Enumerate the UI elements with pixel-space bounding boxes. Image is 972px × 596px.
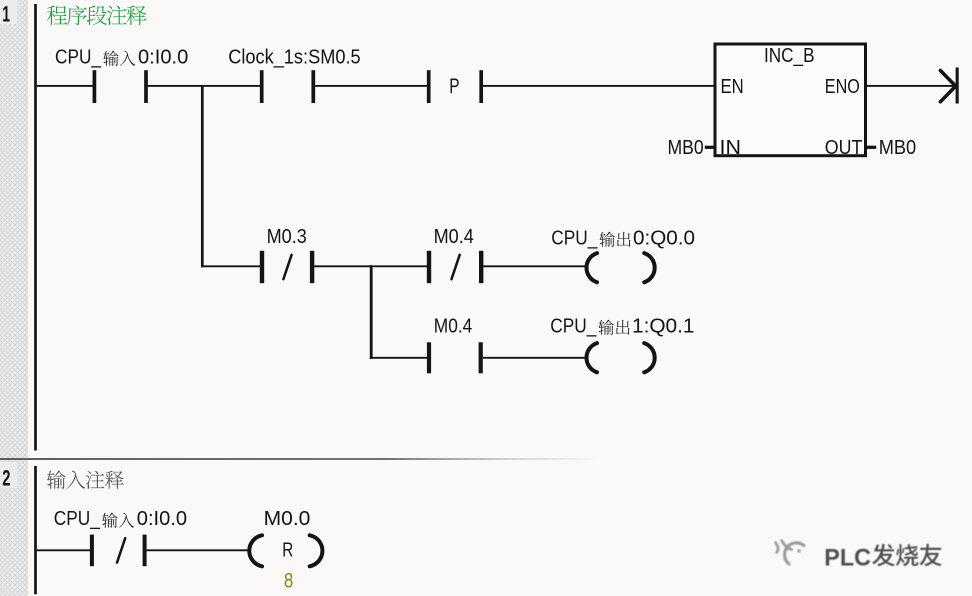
label CPU_输出1:Q0.1: [550, 315, 694, 337]
network number gutter (hatched): [0, 0, 28, 596]
label CPU_输入0:I0.0: [55, 46, 188, 68]
wire: M0.4 to coil Q0.0: [483, 265, 586, 267]
svg-text:IN: IN: [720, 137, 742, 159]
svg-text:INC_B: INC_B: [764, 45, 815, 67]
contact P (positive edge): [427, 70, 483, 103]
svg-text:R: R: [282, 540, 293, 562]
wire: I0.0 to SM0.5 (junction at branch 1): [148, 85, 262, 87]
network separator line: [0, 458, 972, 460]
network 2 left power rail: [34, 466, 37, 594]
wire: branch to contact M0.3: [201, 265, 262, 267]
svg-text:CPU_: CPU_: [551, 227, 598, 249]
wire: branch 1 vertical: [201, 85, 204, 267]
contact M0.4 (NC): [427, 251, 484, 283]
contact M0.3 (NC): [260, 251, 315, 283]
svg-text:Clock_1s:SM0.5: Clock_1s:SM0.5: [228, 46, 361, 68]
svg-text:0:Q0.0: 0:Q0.0: [633, 227, 695, 249]
contact CPU_输入0:I0.0 (NO): [93, 70, 148, 103]
watermark text PLC发烧友: [824, 544, 941, 572]
svg-text:M0.3: M0.3: [267, 226, 307, 248]
wire: IN pin stub: [705, 146, 714, 149]
svg-text:CPU_: CPU_: [54, 508, 101, 530]
svg-text:8: 8: [284, 569, 293, 592]
svg-text:M0.4: M0.4: [434, 226, 474, 248]
wire: M0.4 to coil Q0.1: [483, 357, 587, 359]
wire: OUT pin stub: [867, 146, 876, 149]
coil CPU_输出0:Q0.0: [586, 253, 654, 282]
label CPU_输入0:I0.0 (net2): [54, 508, 187, 530]
svg-text:2: 2: [2, 466, 10, 491]
svg-text:CPU_: CPU_: [55, 46, 102, 68]
svg-text:MB0: MB0: [879, 137, 917, 159]
svg-text:PLC: PLC: [824, 545, 871, 572]
svg-text:ENO: ENO: [825, 76, 860, 98]
wire: ENO to right arrow: [867, 85, 956, 87]
svg-text:M0.4: M0.4: [434, 315, 473, 337]
coil CPU_输出1:Q0.1: [586, 343, 654, 372]
svg-text:OUT: OUT: [825, 137, 863, 159]
contact CPU_输入0:I0.0 (NC): [90, 535, 147, 567]
svg-text:M0.0: M0.0: [264, 508, 311, 530]
function box INC_B: [715, 44, 866, 156]
svg-text:0:I0.0: 0:I0.0: [137, 508, 187, 530]
label CPU_输出0:Q0.0: [551, 227, 695, 249]
network 2 title comment (gray): [47, 470, 124, 489]
wire: M0.3 to M0.4 (junction at branch 2): [314, 265, 429, 267]
wire: P contact to INC_B box: [483, 85, 714, 87]
network 1 title comment (green): [47, 5, 147, 25]
svg-text:CPU_: CPU_: [550, 315, 597, 337]
svg-text:0:I0.0: 0:I0.0: [138, 46, 188, 68]
wire: rail to contact I0.0: [37, 85, 93, 87]
svg-text:1: 1: [2, 2, 10, 27]
watermark logo: [776, 541, 805, 565]
contact M0.4 (NO): [427, 342, 483, 373]
wire: I0.0 to coil R: [147, 549, 250, 551]
coil M0.0 (R reset): [249, 535, 322, 566]
svg-text:EN: EN: [721, 76, 744, 98]
svg-text:MB0: MB0: [668, 137, 704, 159]
wire: branch 2 vertical: [370, 265, 373, 359]
network 1 left power rail: [34, 4, 37, 451]
svg-text:1:Q0.1: 1:Q0.1: [632, 315, 695, 337]
wire: rail to contact I0.0 (net2): [37, 549, 90, 551]
wire: branch 2 to contact M0.4: [370, 357, 429, 359]
wire: SM0.5 to P contact: [315, 85, 429, 87]
right continuation arrow: [940, 68, 958, 104]
svg-text:P: P: [449, 75, 459, 98]
contact Clock_1s:SM0.5 (NO): [260, 70, 315, 103]
